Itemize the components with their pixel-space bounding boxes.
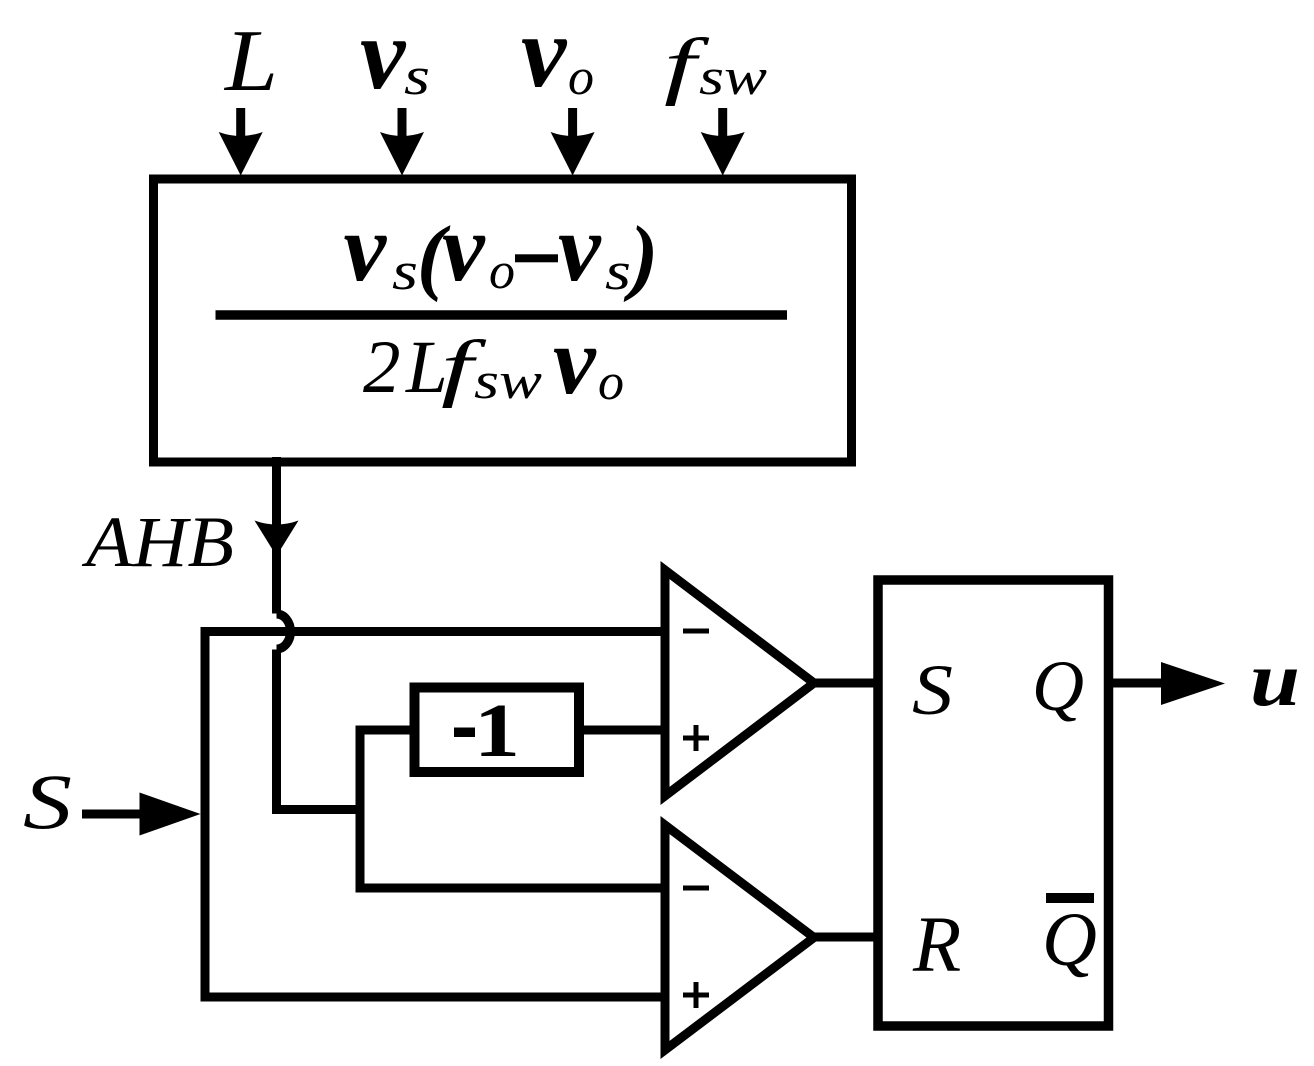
svg-text:AHB: AHB	[82, 502, 234, 582]
wire input vo	[568, 108, 577, 145]
SR latch box	[878, 580, 1109, 1026]
svg-text:v: v	[558, 194, 602, 301]
wire AHB to comparator2 minus	[360, 884, 665, 893]
arrowhead input L	[219, 132, 263, 176]
arrowhead input vo	[551, 132, 595, 176]
svg-text:v: v	[344, 194, 388, 301]
wire comparator1 output to S	[814, 679, 878, 688]
gain block -1 box	[415, 688, 580, 773]
svg-text:Q: Q	[1042, 898, 1097, 982]
wire input fsw	[718, 108, 727, 145]
svg-text:S: S	[23, 758, 72, 845]
wire input vs	[398, 108, 407, 145]
wire AHB elbow horizontal	[272, 805, 360, 814]
svg-text:s: s	[392, 241, 418, 301]
comparator1 plus sign	[683, 725, 709, 751]
comparator2 plus sign	[683, 982, 709, 1008]
comparator1 minus sign	[683, 629, 709, 634]
Qbar overline	[1046, 893, 1094, 903]
svg-text:s: s	[404, 46, 430, 106]
svg-text:v: v	[442, 194, 486, 301]
gain value -1	[454, 728, 475, 738]
arrowhead AHB	[255, 521, 299, 557]
svg-text:o: o	[489, 243, 515, 300]
svg-text:2: 2	[363, 326, 401, 409]
fraction bar	[216, 310, 788, 320]
wire S to comparator1 minus	[201, 627, 666, 636]
svg-text:S: S	[912, 650, 953, 730]
svg-text:L: L	[223, 13, 278, 110]
wire -1 output to comparator1 plus	[579, 726, 665, 735]
svg-text:u: u	[1250, 636, 1300, 722]
comparator U2 triangle	[665, 825, 814, 1050]
comparator2 minus sign	[683, 886, 709, 891]
svg-text:v: v	[360, 0, 407, 111]
arrowhead S input	[140, 793, 201, 836]
svg-text:v: v	[553, 307, 597, 414]
wire S to comparator2 plus	[201, 993, 666, 1002]
wire into -1 box	[360, 726, 414, 735]
arrowhead input vs	[380, 132, 424, 176]
wire AHB vertical upper	[272, 457, 281, 614]
svg-text:o: o	[568, 49, 594, 106]
svg-text:o: o	[598, 354, 624, 411]
hop over S wire	[277, 614, 291, 649]
svg-text:s: s	[605, 241, 631, 301]
wire comparator2 output to R	[814, 933, 878, 942]
wire AHB branch vertical	[356, 726, 365, 893]
arrowhead output u	[1161, 662, 1225, 705]
svg-text:1: 1	[474, 689, 520, 773]
svg-text:sw: sw	[474, 353, 542, 410]
svg-text:Q: Q	[1032, 646, 1084, 726]
svg-text:v: v	[521, 0, 568, 109]
comparator U1 triangle	[665, 570, 814, 796]
wire output u shaft	[1109, 679, 1164, 688]
wire input L	[236, 108, 245, 145]
arrowhead input fsw	[701, 132, 745, 176]
formula block box	[154, 179, 852, 462]
wire S bus vertical	[201, 627, 210, 1002]
svg-text:R: R	[912, 902, 961, 989]
wire AHB vertical lower after hop	[272, 650, 281, 815]
wire S input shaft	[82, 810, 141, 819]
svg-text:sw: sw	[699, 49, 767, 106]
